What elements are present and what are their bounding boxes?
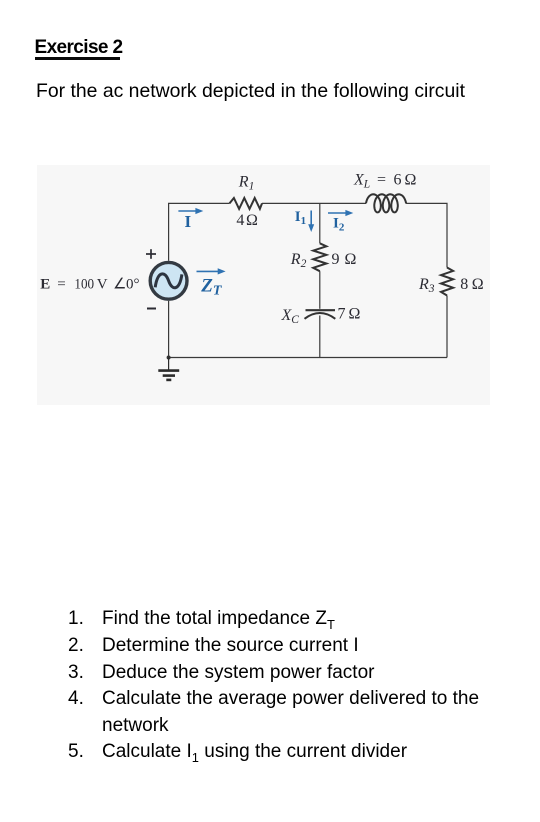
svg-text:I: I: [185, 212, 192, 231]
figure background: [37, 165, 490, 405]
wire top-mid: R1 to node A: [262, 202, 366, 204]
wire top-left: source top to R1: [169, 203, 230, 260]
wire middle-mid: R2 to capacitor: [319, 271, 321, 309]
current arrow I2: [328, 210, 353, 216]
source sine wave: [155, 274, 182, 288]
plus sign: [146, 249, 156, 259]
wire right-lower: R3 to bottom wire: [446, 296, 448, 358]
svg-text:8Ω: 8Ω: [460, 276, 484, 293]
resistor R1: [230, 198, 263, 209]
current arrow I: [178, 208, 203, 214]
source E circle: [150, 262, 187, 299]
minus sign: [147, 308, 156, 310]
resistor R3: [441, 268, 453, 296]
capacitor XC top plate: [306, 309, 336, 311]
arrow ZT: [197, 268, 226, 274]
svg-text:7Ω: 7Ω: [338, 305, 361, 322]
node junction dot: [167, 356, 171, 360]
ground: [158, 358, 179, 380]
wire middle-upper: node A to R2: [319, 203, 321, 243]
svg-text:XL=6Ω: XL=6Ω: [353, 172, 417, 191]
capacitor XC bottom plate (arc): [305, 313, 336, 319]
svg-text:4Ω: 4Ω: [236, 212, 258, 229]
inductor XL: [366, 194, 406, 212]
wire left-lower: source bottom to bottom wire: [168, 301, 170, 358]
current arrow I1 (down): [308, 211, 314, 233]
wire top-right: inductor to right branch: [406, 203, 447, 267]
svg-text:9Ω: 9Ω: [332, 251, 357, 268]
resistor R2: [313, 243, 326, 271]
wire middle-lower: capacitor to bottom wire: [319, 316, 321, 358]
wire bottom: [169, 357, 447, 359]
